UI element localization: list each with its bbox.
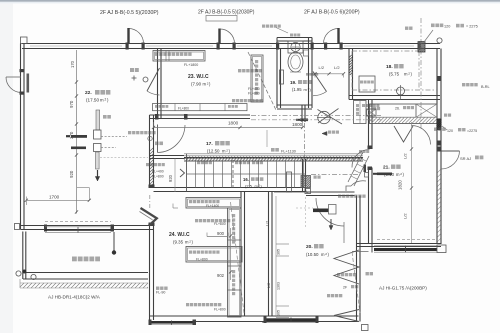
room20 accordion lower xyxy=(334,310,359,322)
room21 left arrow xyxy=(377,173,392,176)
svg-text:1303: 1303 xyxy=(277,282,281,290)
svg-text:120: 120 xyxy=(447,129,453,133)
toilet paper holder xyxy=(280,70,284,84)
svg-text:(1.95: (1.95 xyxy=(292,87,302,92)
south window room20 xyxy=(265,318,317,321)
void stub wall xyxy=(301,105,303,122)
svg-text:23. W.I.C: 23. W.I.C xyxy=(188,74,209,80)
room20 east wall xyxy=(356,196,358,322)
svg-text:(7.90: (7.90 xyxy=(191,82,202,87)
svg-text:m: m xyxy=(100,98,104,103)
grid dash line x421 xyxy=(420,18,422,130)
handle box xyxy=(365,173,369,178)
svg-text:B-RL: B-RL xyxy=(481,85,490,89)
balcony post with dot xyxy=(113,232,115,251)
svg-text:2F AJ B-B(-0.5 6)(200P): 2F AJ B-B(-0.5 6)(200P) xyxy=(304,10,360,16)
WIC24 east closet xyxy=(228,208,242,317)
WIC23 diagonal dash xyxy=(248,52,276,110)
balcony hatch band xyxy=(20,282,148,284)
room21 west wall lower xyxy=(368,168,370,244)
svg-text:1800: 1800 xyxy=(292,122,303,127)
undercut door label xyxy=(128,131,131,134)
svg-text:305: 305 xyxy=(277,310,281,316)
svg-text:(9.35: (9.35 xyxy=(173,240,184,245)
east wall jamb boxes xyxy=(437,141,442,146)
counter label FL+1130 xyxy=(271,148,275,152)
WIC24 shelf label xyxy=(195,219,198,222)
slope label FL-90 xyxy=(156,287,159,290)
svg-text:970: 970 xyxy=(69,100,74,108)
storage west wall xyxy=(348,49,350,100)
stair hatched block xyxy=(301,176,311,188)
bedroom furniture symbol 2 xyxy=(94,144,102,152)
toilet bowl xyxy=(288,52,303,72)
svg-text:1700: 1700 xyxy=(49,195,60,200)
void dash lines xyxy=(251,115,381,117)
west wing east wall upper xyxy=(149,115,151,188)
svg-text:AJ HI-G1.75 /A(200BP): AJ HI-G1.75 /A(200BP) xyxy=(379,286,427,291)
room20 accordion upper xyxy=(334,250,359,284)
door arc top 1 xyxy=(129,29,144,44)
svg-text:20.: 20. xyxy=(306,244,313,250)
svg-text:L/2: L/2 xyxy=(267,283,271,288)
WIC24 inner closet box xyxy=(186,247,242,263)
svg-text:17.: 17. xyxy=(206,141,213,147)
top wall door jambs xyxy=(126,43,129,50)
svg-text:16.: 16. xyxy=(243,177,249,182)
right margin text a xyxy=(462,83,465,86)
accordion dash diagonal xyxy=(352,252,360,313)
tv antenna label xyxy=(262,25,265,28)
balcony west wall xyxy=(22,232,24,280)
fan arrow xyxy=(300,119,308,122)
hall short wall west of stairs xyxy=(150,155,185,157)
open label xyxy=(155,142,159,146)
futon closet box xyxy=(370,104,438,124)
accordion labels xyxy=(337,273,340,276)
svg-text:FL+1130: FL+1130 xyxy=(281,150,296,154)
ceiling fan symbol xyxy=(318,111,330,123)
svg-text:m: m xyxy=(255,184,258,189)
stair break chevron xyxy=(180,169,185,177)
svg-text:19.: 19. xyxy=(290,80,296,85)
closet door arc xyxy=(412,126,431,145)
bottom outer wall xyxy=(150,315,359,317)
svg-text:FL+800: FL+800 xyxy=(152,175,164,179)
toilet bump top xyxy=(277,37,312,39)
WIC23 closet label xyxy=(238,69,241,72)
WIC23 south closet label xyxy=(232,99,235,102)
svg-text:902: 902 xyxy=(217,273,225,278)
toilet east wall xyxy=(308,38,310,109)
room20 west dim ticks xyxy=(275,196,277,317)
svg-text:21.: 21. xyxy=(383,165,390,171)
toilet corner door xyxy=(313,72,327,92)
svg-text:FL+1800: FL+1800 xyxy=(184,63,198,67)
svg-text:1820: 1820 xyxy=(398,180,403,190)
room21 door arc xyxy=(352,150,370,168)
hall dim line xyxy=(154,127,303,129)
open flap chevron xyxy=(141,208,157,226)
title underline box xyxy=(206,16,237,22)
middle strip west wall xyxy=(240,192,242,317)
C circle xyxy=(437,38,442,43)
svg-text:L/2: L/2 xyxy=(334,65,340,70)
room20 door arc xyxy=(316,198,344,226)
svg-text:L/2: L/2 xyxy=(403,153,408,159)
svg-text:SR AJ: SR AJ xyxy=(460,156,471,161)
svg-text:920: 920 xyxy=(69,170,74,178)
tensen label top xyxy=(405,27,408,30)
room21 south window xyxy=(377,239,437,241)
SE corner box xyxy=(362,325,369,331)
svg-text:(17.50: (17.50 xyxy=(86,98,99,103)
east door leaf xyxy=(441,150,460,152)
ceiling access hatch xyxy=(367,109,377,116)
svg-text:1800: 1800 xyxy=(228,121,239,126)
balcony drain circles xyxy=(16,271,21,276)
west wing east wall lower xyxy=(149,226,151,321)
WIC23 south closet band xyxy=(153,104,248,111)
WIC23 top closet box xyxy=(153,51,205,62)
wall piece near room21 door xyxy=(364,165,367,173)
svg-text:(12.50: (12.50 xyxy=(207,149,220,154)
room20 door arrow xyxy=(330,219,332,227)
oshiire label xyxy=(373,107,376,110)
svg-text:FL+400: FL+400 xyxy=(248,87,260,91)
counter band xyxy=(184,153,363,155)
right outer wall xyxy=(436,49,438,245)
storage divider wall H2 xyxy=(349,95,440,97)
svg-text:(10.50: (10.50 xyxy=(306,252,319,257)
svg-text:L/2: L/2 xyxy=(319,65,325,70)
monoire label xyxy=(314,176,317,179)
svg-text:2F AJ B-B(-0.5 5)(2030P): 2F AJ B-B(-0.5 5)(2030P) xyxy=(100,10,159,16)
svg-text:FL-90: FL-90 xyxy=(156,291,165,295)
storage dashed inset rect xyxy=(352,50,419,52)
bedroom furniture symbol 1 xyxy=(96,110,100,130)
svg-text:2F AJ B-B(-0.5 5)(2030P): 2F AJ B-B(-0.5 5)(2030P) xyxy=(198,10,255,16)
room20 north wall xyxy=(306,191,355,193)
pre-column top xyxy=(418,42,425,53)
stair south wall xyxy=(154,187,307,189)
svg-text:FL+400: FL+400 xyxy=(152,170,164,174)
tensen right xyxy=(444,114,447,117)
right wall jamb y76 xyxy=(437,76,442,81)
pre label top xyxy=(431,24,435,28)
bracket tick at 920 line xyxy=(172,204,174,209)
pillar box left of wall xyxy=(15,224,20,230)
closet chevron door xyxy=(394,126,413,142)
door arc top 3 toilet corridor xyxy=(324,29,339,44)
svg-text:= 2275: = 2275 xyxy=(466,25,478,29)
svg-text:L: L xyxy=(306,190,308,194)
bay window left xyxy=(6,76,21,78)
svg-text:305: 305 xyxy=(277,249,281,255)
svg-text:L/2: L/2 xyxy=(403,213,408,219)
left dim line xyxy=(76,50,78,214)
WIC23 door jambs xyxy=(155,114,159,120)
svg-text:(5.75: (5.75 xyxy=(389,72,400,77)
grid bubble on H2 xyxy=(397,87,405,95)
hall SE corner bracket xyxy=(346,186,351,191)
pre label right xyxy=(434,128,437,131)
WIC24 lower label xyxy=(186,303,189,306)
svg-text:FL+800: FL+800 xyxy=(248,92,260,96)
svg-text:900: 900 xyxy=(217,231,225,236)
WIC24 top closet xyxy=(186,198,241,209)
top-left corner box xyxy=(21,37,28,44)
bedroom south wall xyxy=(21,225,154,227)
middle strip east wall / room20 west wall xyxy=(268,192,270,317)
svg-text:FL+800: FL+800 xyxy=(178,106,189,110)
toilet model label xyxy=(290,34,293,37)
toilet remote box xyxy=(304,50,309,56)
door arc top 2 xyxy=(220,29,235,44)
narrow closet by corridor xyxy=(354,101,367,124)
left outer wall xyxy=(20,44,22,230)
svg-text:FL+1400: FL+1400 xyxy=(206,204,219,208)
PS duct box xyxy=(287,172,292,192)
understair closet labels xyxy=(146,163,149,166)
south window room24 xyxy=(150,321,195,324)
svg-text:=2275: =2275 xyxy=(467,129,477,133)
svg-text:L/2: L/2 xyxy=(266,221,270,226)
room21 west wall upper xyxy=(368,100,370,150)
ceiling light symbol xyxy=(130,68,134,72)
room21 south wall xyxy=(357,243,442,245)
svg-text:22.: 22. xyxy=(85,90,92,96)
svg-text:AJ HB-DR1-4(18C)2 W/A: AJ HB-DR1-4(18C)2 W/A xyxy=(48,295,101,300)
svg-text:24. W.I.C: 24. W.I.C xyxy=(169,232,190,238)
top wall window centerlines xyxy=(30,45,122,47)
WIC23 south wall xyxy=(150,114,251,116)
hashira label xyxy=(366,272,369,275)
corridor dash line xyxy=(311,174,359,176)
shutter cap xyxy=(437,245,446,253)
WIC23 east closet xyxy=(251,55,263,102)
stair treads xyxy=(186,154,188,192)
window jambs at WIC24 west xyxy=(149,185,155,189)
svg-text:120: 120 xyxy=(444,25,450,29)
bedroom south window band xyxy=(45,221,111,223)
svg-text:FL+800: FL+800 xyxy=(214,222,226,226)
undercut label room21 xyxy=(338,195,341,198)
WIC24 diagonal dash xyxy=(231,202,245,313)
attic ladder xyxy=(348,152,363,182)
room20 dashed guides xyxy=(305,197,307,228)
svg-text:920: 920 xyxy=(168,174,173,182)
toilet south wall xyxy=(277,104,312,106)
room20 door knob xyxy=(313,209,329,213)
WIC23 west wall xyxy=(157,49,159,119)
chevron dash guide xyxy=(149,195,151,208)
svg-text:18.: 18. xyxy=(386,64,393,70)
svg-text:FL+800: FL+800 xyxy=(196,258,208,262)
L box xyxy=(305,189,311,194)
room21 door jambs xyxy=(368,146,373,150)
toilet west wall xyxy=(276,49,278,109)
balcony south wall xyxy=(23,272,148,274)
svg-text:(2.5: (2.5 xyxy=(245,184,253,189)
svg-text:170: 170 xyxy=(70,60,75,68)
hall door arc xyxy=(158,125,186,153)
WIC23 door leaf diagonal xyxy=(147,68,160,91)
top outer wall xyxy=(22,43,440,45)
balcony label xyxy=(72,257,77,262)
stair label row xyxy=(197,161,200,164)
svg-text:26.: 26. xyxy=(395,107,400,111)
storage small box xyxy=(359,76,375,92)
toilet tank xyxy=(288,41,303,53)
svg-text:FL+800: FL+800 xyxy=(214,308,226,312)
